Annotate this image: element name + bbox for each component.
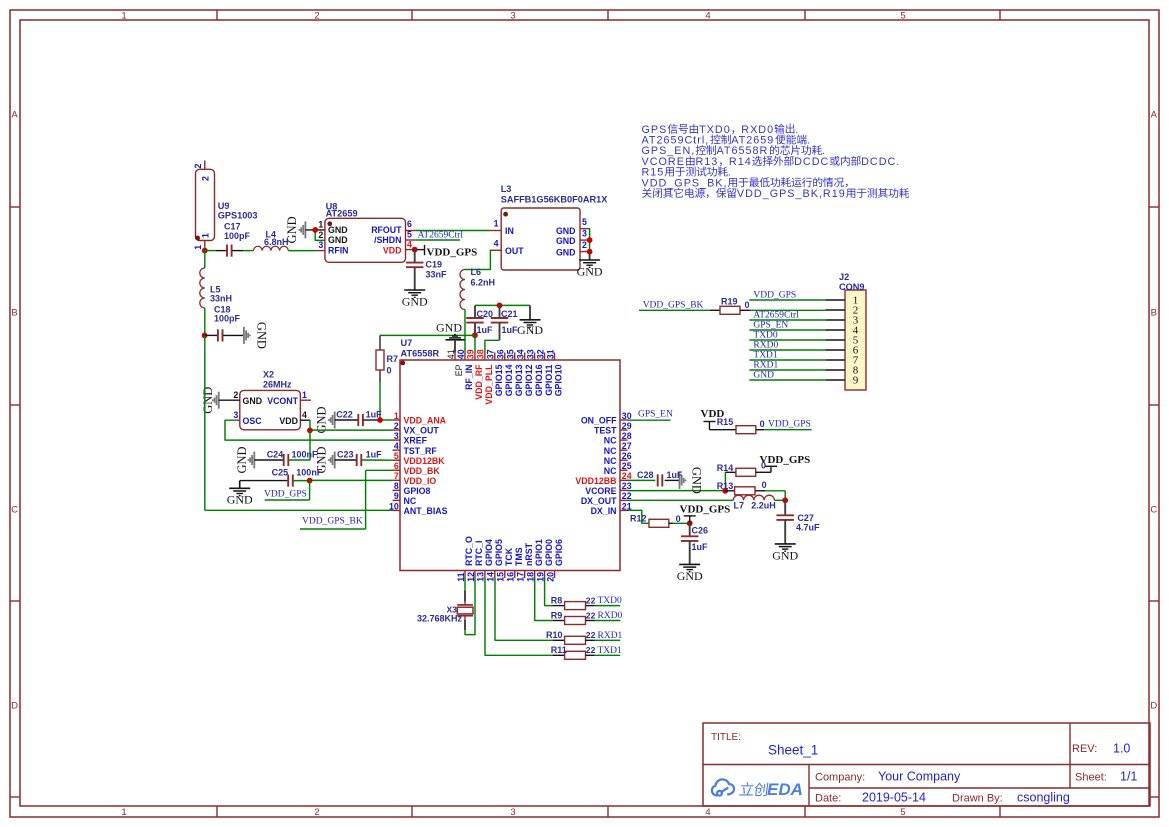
svg-text:L3: L3 [501, 184, 512, 194]
svg-text:26: 26 [622, 451, 632, 461]
svg-text:C25: C25 [272, 468, 289, 478]
svg-text:2: 2 [193, 164, 203, 169]
svg-text:Your Company: Your Company [878, 770, 961, 784]
svg-text:RFOUT: RFOUT [371, 225, 402, 235]
svg-text:GND: GND [328, 235, 348, 245]
resistor R9 22 [553, 620, 565, 622]
wire to C24 [309, 431, 311, 461]
svg-text:33nH: 33nH [210, 294, 232, 304]
svg-text:20: 20 [545, 572, 555, 582]
svg-text:.: . [795, 124, 799, 136]
junction node VDD_ANA [377, 417, 383, 423]
svg-text:C: C [11, 504, 18, 515]
connector J2 CON9 [845, 290, 866, 390]
U7 pin 22 DX_OUT [620, 499, 628, 501]
inductor L4 6.8nH [254, 246, 289, 250]
svg-text:100pF: 100pF [214, 314, 241, 324]
svg-text:Company:: Company: [815, 772, 865, 784]
U7 pin 40 RF_IN [464, 353, 466, 361]
svg-text:VDD_PLL: VDD_PLL [484, 364, 494, 405]
svg-text:TCK: TCK [504, 547, 514, 566]
U7 pin 6 VDD_BK [393, 469, 401, 471]
wire DX_OUT to L7 [628, 499, 734, 501]
svg-text:2: 2 [314, 10, 319, 21]
svg-text:.: . [728, 167, 732, 179]
svg-text:GPIO16: GPIO16 [534, 364, 544, 396]
svg-text:1uF: 1uF [692, 542, 709, 552]
svg-text:VDD_GPS_BK,: VDD_GPS_BK, [642, 177, 728, 189]
svg-text:Sheet:: Sheet: [1075, 772, 1107, 784]
junction node R12/C26 [687, 520, 693, 526]
wire pin to R11 [485, 578, 553, 655]
capacitor C18 100pF [205, 334, 217, 336]
svg-text:RXD1: RXD1 [753, 360, 778, 370]
svg-text:/SHDN: /SHDN [374, 235, 401, 245]
svg-text:33nF: 33nF [426, 270, 448, 280]
wire [205, 250, 216, 252]
svg-text:GPIO10: GPIO10 [554, 364, 564, 396]
wire C20/C21 top rail to ground [475, 304, 530, 306]
svg-text:GPIO6: GPIO6 [554, 539, 564, 566]
J2 pin 5 net TXD0 [749, 339, 825, 341]
svg-text:GND: GND [227, 493, 253, 507]
svg-text:0: 0 [745, 300, 750, 310]
L3 pin 3 GND [580, 239, 586, 241]
svg-text:0: 0 [760, 419, 765, 429]
U7 pin 41 EP [454, 353, 456, 361]
wire R7 top rail [380, 334, 475, 336]
junction node VCORE/R13/R14 [722, 488, 728, 494]
wire [315, 230, 325, 241]
svg-text:4.7uF: 4.7uF [796, 523, 820, 533]
svg-text:8: 8 [394, 481, 399, 491]
svg-text:4: 4 [394, 441, 399, 451]
capacitor C27 4.7uF [784, 500, 786, 515]
svg-text:AT2659: AT2659 [326, 209, 358, 219]
svg-text:AT2659Ctrl: AT2659Ctrl [418, 230, 464, 240]
net label GPS_EN at pin30 [628, 419, 671, 421]
wire U8 RFOUT to L3 IN [406, 230, 416, 232]
svg-text:VDD_GPS: VDD_GPS [680, 503, 731, 515]
svg-text:TEST: TEST [594, 426, 617, 436]
svg-text:1: 1 [302, 390, 307, 400]
svg-text:3: 3 [510, 807, 515, 818]
svg-text:2: 2 [318, 230, 323, 240]
svg-text:3: 3 [510, 10, 515, 21]
svg-text:RXD0: RXD0 [753, 340, 778, 350]
junction node antenna/L5/C17 [202, 248, 208, 254]
svg-text:EDA: EDA [767, 780, 803, 799]
svg-text:GND: GND [577, 265, 603, 279]
svg-text:VDD_GPS_BK: VDD_GPS_BK [643, 300, 704, 310]
J2 pin 2 [826, 309, 845, 311]
svg-text:22: 22 [586, 645, 596, 655]
IC U8 AT2659 [325, 218, 406, 262]
resistor R10 22 [553, 639, 565, 641]
inductor L5 33nH [204, 251, 206, 268]
svg-text:VDD_RF: VDD_RF [474, 364, 484, 400]
svg-text:3: 3 [394, 431, 399, 441]
U7 pin 27 NC [620, 449, 628, 451]
ground below L3 [579, 259, 600, 261]
svg-text:GND: GND [677, 569, 703, 583]
wire C20 to VDD_RF pin39 [474, 335, 476, 352]
J2 pin 4 net GPS_EN [749, 329, 825, 331]
svg-text:4: 4 [494, 238, 499, 248]
svg-text:C19: C19 [426, 259, 443, 269]
J2 pin 9 net GND [749, 379, 825, 381]
svg-text:1uF: 1uF [667, 470, 684, 480]
svg-text:24: 24 [622, 471, 632, 481]
svg-text:C22: C22 [336, 410, 353, 420]
svg-text:15: 15 [496, 572, 506, 582]
svg-text:R13: R13 [696, 156, 719, 168]
svg-text:GPIO14: GPIO14 [504, 364, 514, 396]
svg-text:GPS_EN: GPS_EN [753, 320, 788, 330]
svg-text:2: 2 [582, 240, 587, 250]
frame column ticks [216, 10, 218, 20]
svg-text:VCORE: VCORE [585, 486, 616, 496]
svg-text:AT6558R: AT6558R [401, 349, 440, 359]
svg-text:12: 12 [466, 572, 476, 582]
svg-text:C23: C23 [337, 450, 354, 460]
U7 pin 28 NC [620, 439, 628, 441]
U7 pin 35 GPIO13 [514, 353, 516, 361]
svg-text:R7: R7 [387, 354, 399, 364]
svg-text:33: 33 [525, 349, 535, 359]
svg-text:GPS_EN: GPS_EN [638, 409, 673, 419]
svg-text:17: 17 [516, 572, 526, 582]
svg-text:TST_RF: TST_RF [404, 446, 438, 456]
svg-text:1uF: 1uF [477, 325, 494, 335]
svg-text:DX_IN: DX_IN [591, 506, 617, 516]
U7 pin 24 VDD12BB [620, 479, 628, 481]
U7 pin 37 GPIO15 [494, 353, 496, 361]
U7 pin 29 TEST [620, 429, 628, 431]
svg-text:VDD_GPS: VDD_GPS [760, 454, 811, 466]
svg-text:3: 3 [233, 410, 238, 420]
svg-text:R13: R13 [717, 481, 734, 491]
U7 pin 12 RTC_I [474, 571, 476, 579]
ground below C26 [679, 563, 700, 565]
net label VDD_GPS_BK to VDD_BK pin6 [366, 469, 393, 471]
junction node U8 pin1 [312, 227, 318, 233]
junction node L3 pin3 [587, 237, 593, 243]
svg-text:34: 34 [515, 349, 525, 359]
junction node C18 [202, 333, 208, 339]
L3 pin 1 IN [490, 230, 501, 232]
svg-text:0: 0 [387, 365, 392, 375]
svg-text:1: 1 [121, 10, 126, 21]
svg-text:A: A [11, 109, 18, 120]
resistor R14 0 [724, 472, 726, 491]
junction node VDD_IO [307, 478, 313, 484]
svg-text:VDD12BK: VDD12BK [404, 456, 446, 466]
antenna U9 [204, 161, 206, 170]
svg-text:GPS1003: GPS1003 [218, 210, 258, 220]
svg-text:R11: R11 [551, 645, 567, 655]
U7 pin 21 DX_IN [620, 509, 628, 511]
svg-text:1/1: 1/1 [1120, 770, 1137, 784]
U7 pin 36 GPIO14 [504, 353, 506, 361]
U7 pin 19 GPIO0 [544, 571, 546, 579]
svg-text:C17: C17 [224, 221, 241, 231]
wire R19 to J2 pin2 [750, 309, 826, 311]
svg-text:VDD_GPS: VDD_GPS [264, 490, 307, 500]
svg-text:Drawn By:: Drawn By: [952, 793, 1003, 805]
svg-text:5: 5 [900, 10, 905, 21]
svg-text:39: 39 [466, 349, 476, 359]
title block border [703, 723, 1150, 806]
U7 pin 18 GPIO1 [534, 571, 536, 579]
svg-text:ON_OFF: ON_OFF [581, 416, 617, 426]
svg-text:GND: GND [235, 446, 249, 473]
svg-text:35: 35 [506, 349, 516, 359]
J2 pin 8 net RXD1 [749, 369, 825, 371]
ground below C19 [404, 289, 425, 291]
svg-text:NC: NC [604, 436, 617, 446]
svg-text:VDD: VDD [279, 416, 298, 426]
svg-text:X2: X2 [263, 370, 274, 380]
U7 pin 4 TST_RF [393, 449, 401, 451]
net label VDD_GPS left [309, 481, 311, 500]
svg-text:SAFFB1G56KB0F0AR1X: SAFFB1G56KB0F0AR1X [501, 195, 609, 205]
svg-text:VDD_GPS: VDD_GPS [768, 420, 811, 430]
svg-text:28: 28 [622, 431, 632, 441]
U7 pin 20 GPIO6 [554, 571, 556, 579]
svg-text:VDD_BK: VDD_BK [404, 466, 441, 476]
wire C22 to pin1 [378, 419, 393, 421]
wire X2 VDD to VX_OUT [309, 420, 311, 430]
title block dividers [703, 764, 1150, 766]
svg-text:TXD0: TXD0 [598, 596, 623, 606]
svg-text:VDD_GPS: VDD_GPS [427, 246, 478, 258]
svg-text:31: 31 [545, 349, 555, 359]
U7 pin 7 VDD_IO [393, 479, 401, 481]
svg-text:27: 27 [622, 441, 632, 451]
svg-text:2019-05-14: 2019-05-14 [862, 791, 926, 805]
wire VCORE [628, 490, 726, 492]
svg-text:26MHz: 26MHz [263, 380, 292, 390]
svg-text:GPIO4: GPIO4 [484, 539, 494, 566]
svg-text:13: 13 [476, 572, 486, 582]
svg-text:OSC: OSC [243, 416, 263, 426]
svg-text:1uF: 1uF [366, 450, 383, 460]
svg-text:36: 36 [496, 349, 506, 359]
junction node C21 top [497, 303, 503, 309]
svg-text:DX_OUT: DX_OUT [581, 496, 617, 506]
svg-text:GND: GND [285, 216, 299, 243]
svg-text:TMS: TMS [514, 547, 524, 566]
svg-text:2: 2 [233, 390, 238, 400]
capacitor C20 1uF [474, 305, 476, 318]
svg-text:GPIO1: GPIO1 [534, 539, 544, 566]
svg-text:4: 4 [705, 807, 710, 818]
svg-text:100pF: 100pF [224, 231, 251, 241]
svg-text:3: 3 [318, 240, 323, 250]
svg-text:14: 14 [486, 572, 496, 582]
svg-text:37: 37 [486, 349, 496, 359]
svg-text:9: 9 [853, 375, 859, 387]
svg-text:GND: GND [243, 396, 263, 406]
svg-text:U7: U7 [401, 338, 413, 348]
svg-text:100nF: 100nF [296, 468, 323, 478]
svg-text:IN: IN [505, 226, 514, 236]
capacitor C19 33nF [414, 250, 416, 263]
svg-text:REV:: REV: [1072, 743, 1097, 755]
wire pin to R8 [545, 578, 553, 606]
U7 pin 11 RTC_O [464, 571, 466, 579]
svg-text:csongling: csongling [1017, 791, 1070, 805]
svg-text:A: A [1151, 109, 1158, 120]
U7 pin 2 VX_OUT [393, 429, 401, 431]
svg-text:5: 5 [394, 451, 399, 461]
svg-text:6: 6 [407, 219, 412, 229]
svg-text:R14: R14 [729, 156, 752, 168]
svg-text:GPIO12: GPIO12 [524, 364, 534, 396]
resistor R8 22 [553, 605, 565, 607]
U7 pin 39 VDD_RF [474, 353, 476, 361]
svg-text:GPIO0: GPIO0 [544, 539, 554, 566]
svg-text:1: 1 [318, 219, 323, 229]
net label AT2659Ctrl [406, 239, 416, 241]
U7 pin 10 ANT_BIAS [393, 509, 401, 511]
svg-text:RF_IN: RF_IN [464, 365, 474, 390]
capacitor C25 100nF [239, 481, 241, 489]
svg-text:29: 29 [622, 421, 632, 431]
capacitor C28 1uF [628, 479, 656, 481]
svg-text:.: . [807, 135, 811, 147]
svg-text:6: 6 [394, 461, 399, 471]
X2 pin 1 VCONT [300, 399, 311, 401]
svg-text:L7: L7 [734, 501, 745, 511]
resistor R12 0 [649, 519, 669, 527]
svg-text:1uF: 1uF [502, 325, 519, 335]
svg-text:AT2659Ctrl: AT2659Ctrl [753, 310, 799, 320]
svg-text:VDD_GPS_BK,R19: VDD_GPS_BK,R19 [737, 188, 846, 200]
U7 pin 34 GPIO12 [524, 353, 526, 361]
svg-text:GPIO8: GPIO8 [404, 486, 431, 496]
crystal X2 26MHz [240, 390, 301, 429]
svg-text:VX_OUT: VX_OUT [404, 426, 440, 436]
svg-text:NC: NC [404, 496, 417, 506]
frame row ticks [10, 206, 20, 208]
svg-text:C26: C26 [692, 525, 709, 535]
crystal X3 32.768KHz [464, 578, 466, 590]
U7 pin 23 VCORE [620, 489, 628, 491]
junction node C20 bottom [472, 332, 478, 338]
svg-text:1: 1 [494, 219, 499, 229]
svg-text:L6: L6 [471, 267, 482, 277]
svg-text:C24: C24 [267, 450, 284, 460]
svg-text:B: B [11, 307, 17, 318]
svg-text:D: D [11, 700, 18, 711]
svg-text:VCONT: VCONT [267, 396, 298, 406]
svg-text:2: 2 [201, 176, 211, 181]
svg-text:TXD1: TXD1 [598, 646, 623, 656]
junction node U8 VDD [412, 247, 418, 253]
svg-text:NC: NC [604, 456, 617, 466]
svg-text:38: 38 [476, 349, 486, 359]
svg-text:R15: R15 [717, 417, 734, 427]
wire [288, 250, 315, 252]
J2 pin 3 net AT2659Ctrl [749, 319, 825, 321]
U7 pin 13 GPIO4 [484, 571, 486, 579]
svg-text:R19: R19 [721, 296, 738, 306]
svg-text:NC: NC [604, 446, 617, 456]
svg-text:R10: R10 [546, 630, 563, 640]
svg-text:RTC_O: RTC_O [464, 536, 474, 566]
wire R13 down to L7 output [784, 491, 786, 501]
svg-text:TXD0: TXD0 [753, 330, 778, 340]
U7 pin 16 TMS [514, 571, 516, 579]
svg-text:1: 1 [394, 411, 399, 421]
svg-text:5: 5 [900, 807, 905, 818]
wire X2 OSC to XREF [225, 420, 393, 440]
EasyEDA logo cloud [712, 779, 734, 795]
svg-text:XREF: XREF [404, 436, 428, 446]
net label VDD_GPS_BK at R19 [639, 309, 710, 311]
svg-text:GND: GND [402, 295, 428, 309]
svg-text:D: D [1150, 700, 1157, 711]
capacitor C21 1uF [499, 305, 501, 318]
svg-text:TXD1: TXD1 [753, 350, 778, 360]
resistor R13 0 [725, 490, 734, 492]
svg-text:CON9: CON9 [839, 282, 865, 292]
svg-text:32.768KHz: 32.768KHz [417, 613, 463, 623]
svg-text:1: 1 [201, 233, 211, 238]
svg-text:1.0: 1.0 [1113, 742, 1130, 756]
svg-text:R8: R8 [551, 595, 563, 605]
svg-text:nRST: nRST [524, 542, 534, 566]
svg-text:2: 2 [314, 807, 319, 818]
resistor R19 0 [710, 309, 720, 311]
svg-text:GND: GND [690, 467, 704, 494]
svg-text:6.2nH: 6.2nH [471, 277, 496, 287]
IC U7 AT6558R [400, 360, 620, 571]
svg-text:3: 3 [582, 228, 587, 238]
svg-text:30: 30 [622, 411, 632, 421]
svg-text:GND: GND [255, 322, 269, 349]
junction node X2 VDD [307, 428, 313, 434]
J2 pin 7 net TXD1 [749, 359, 825, 361]
svg-text:GND: GND [436, 321, 462, 335]
svg-text:22: 22 [586, 595, 596, 605]
X2 pin 3 OSC [237, 419, 240, 421]
svg-text:7: 7 [394, 471, 399, 481]
svg-text:OUT: OUT [505, 246, 524, 256]
wire C21 to VDD_PLL pin38 [485, 340, 500, 352]
svg-text:5: 5 [582, 217, 587, 227]
svg-text:C21: C21 [501, 309, 518, 319]
svg-text:4: 4 [407, 239, 412, 249]
svg-text:GPIO15: GPIO15 [494, 364, 504, 396]
svg-text:GND: GND [517, 323, 543, 337]
U7 pin 33 GPIO16 [534, 353, 536, 361]
svg-text:GND: GND [556, 226, 576, 236]
svg-text:4: 4 [302, 410, 307, 420]
wire L3 OUT to L6 [465, 250, 490, 269]
svg-text:GND: GND [556, 236, 576, 246]
ground right of C21 [520, 319, 541, 321]
svg-text:DCDC: DCDC [794, 156, 829, 168]
J2 pin 1 net VDD_GPS [749, 299, 825, 301]
svg-text:EP: EP [454, 364, 464, 376]
EasyEDA logo text [739, 782, 754, 795]
capacitor C17 100pF [216, 250, 227, 252]
svg-text:NC: NC [604, 466, 617, 476]
svg-text:R12: R12 [630, 513, 647, 523]
